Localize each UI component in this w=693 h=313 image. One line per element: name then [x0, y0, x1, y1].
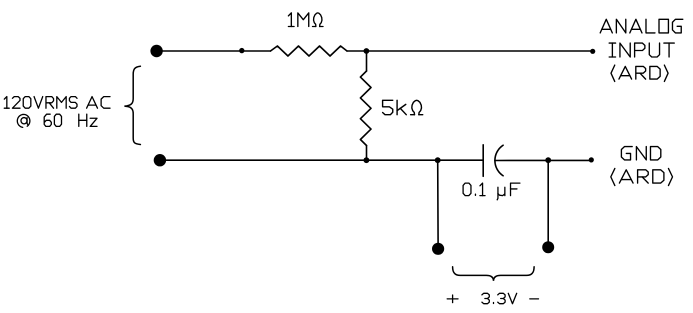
label INPUT (terminal name line 2) [609, 43, 674, 57]
resistor 1M&#937; (series input resistor) [271, 46, 348, 56]
label 120VRMS AC line 1 word 1 [4, 97, 77, 109]
terminal dot, GND (ARD) pin [589, 157, 594, 162]
node dot on input wire [239, 48, 244, 53]
wire, top lead of resistor 5k [366, 51, 368, 71]
junction dot, node at 5k bottom on ground rail [364, 157, 370, 163]
terminal dot, AC source hot terminal [150, 45, 162, 57]
terminal dot, ANALOG INPUT (ARD) pin [590, 49, 595, 54]
label (ARD) under ANALOG INPUT [611, 65, 668, 81]
label at-sign of frequency note [17, 114, 30, 127]
label plus polarity of 3.3V supply [447, 295, 458, 303]
label ANALOG (terminal name line 1) [600, 19, 683, 33]
brace, 120VRMS AC source marker [124, 66, 140, 144]
label 3.3V supply value [482, 293, 517, 303]
junction dot, node at capacitor right lead [545, 157, 551, 163]
label 1M&#937; value [288, 13, 323, 27]
label minus polarity of 3.3V supply [530, 298, 539, 300]
wire, bottom lead of resistor 5k [366, 146, 368, 161]
terminal dot, AC source neutral terminal [154, 154, 166, 166]
wire, 3.3V negative lead down from capacitor node [547, 161, 549, 242]
resistor 5k&#937; (divider lower resistor) [360, 71, 371, 146]
label uF units of capacitor [497, 183, 520, 200]
label (ARD) under GND [611, 168, 673, 185]
wire, resistor R1 to junction and ANALOG INPUT terminal [347, 50, 593, 52]
label Hz frequency units [79, 114, 97, 126]
terminal dot, 3.3V negative terminal [542, 241, 554, 253]
junction dot, node at capacitor left lead [435, 157, 441, 163]
wire, 3.3V positive lead down from ground rail [437, 160, 439, 243]
capacitor 0.1uF flat plate [482, 145, 484, 177]
wire, hot terminal to resistor R1 [157, 50, 271, 52]
terminal dot, 3.3V positive terminal [432, 243, 444, 255]
brace, 3.3V supply marker [453, 267, 534, 281]
label 60 frequency value [44, 114, 61, 126]
label 0.1 value of capacitor [463, 183, 485, 196]
capacitor 0.1uF curved plate [495, 145, 503, 176]
junction dot, node between 1M and 5k (analog input node) [364, 48, 370, 54]
label 120VRMS AC line 1 word 2 [87, 97, 110, 109]
wire, capacitor right plate to GND terminal [495, 159, 591, 161]
label 5k&#937; value [383, 100, 423, 114]
label GND terminal name [621, 147, 660, 160]
wire, neutral terminal to capacitor left plate [160, 159, 483, 161]
